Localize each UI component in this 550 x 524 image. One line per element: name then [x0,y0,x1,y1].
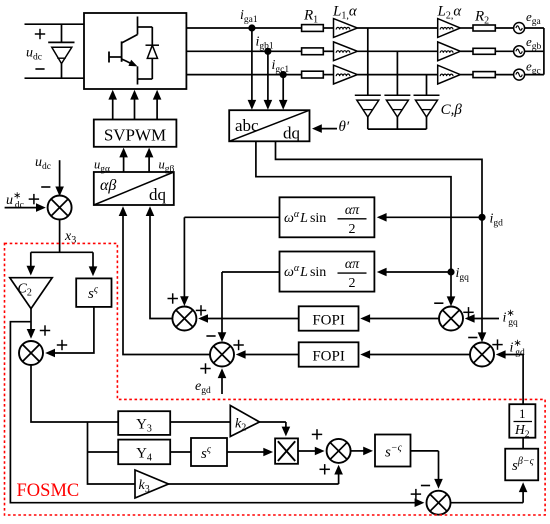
svg-text:απ: απ [345,257,360,272]
svg-text:dq: dq [149,185,167,204]
svg-text:FOPI: FOPI [312,313,345,329]
svg-text:ωαLsin: ωαLsin [284,263,326,280]
svg-text:abc: abc [235,116,259,135]
svg-text:απ: απ [345,203,360,218]
svg-text:2: 2 [349,276,356,291]
svg-text:SVPWM: SVPWM [104,126,166,145]
svg-text:FOPI: FOPI [312,349,345,365]
svg-text:dq: dq [283,124,301,143]
svg-text:FOSMC: FOSMC [17,481,80,501]
svg-text:αβ: αβ [100,177,116,194]
svg-text:C,β: C,β [441,102,463,118]
svg-text:ωαLsin: ωαLsin [284,209,326,226]
svg-text:1: 1 [519,406,526,421]
svg-text:2: 2 [349,222,356,237]
svg-text:u∗dc: u∗dc [6,191,24,211]
svg-text:θ′: θ′ [339,119,350,135]
